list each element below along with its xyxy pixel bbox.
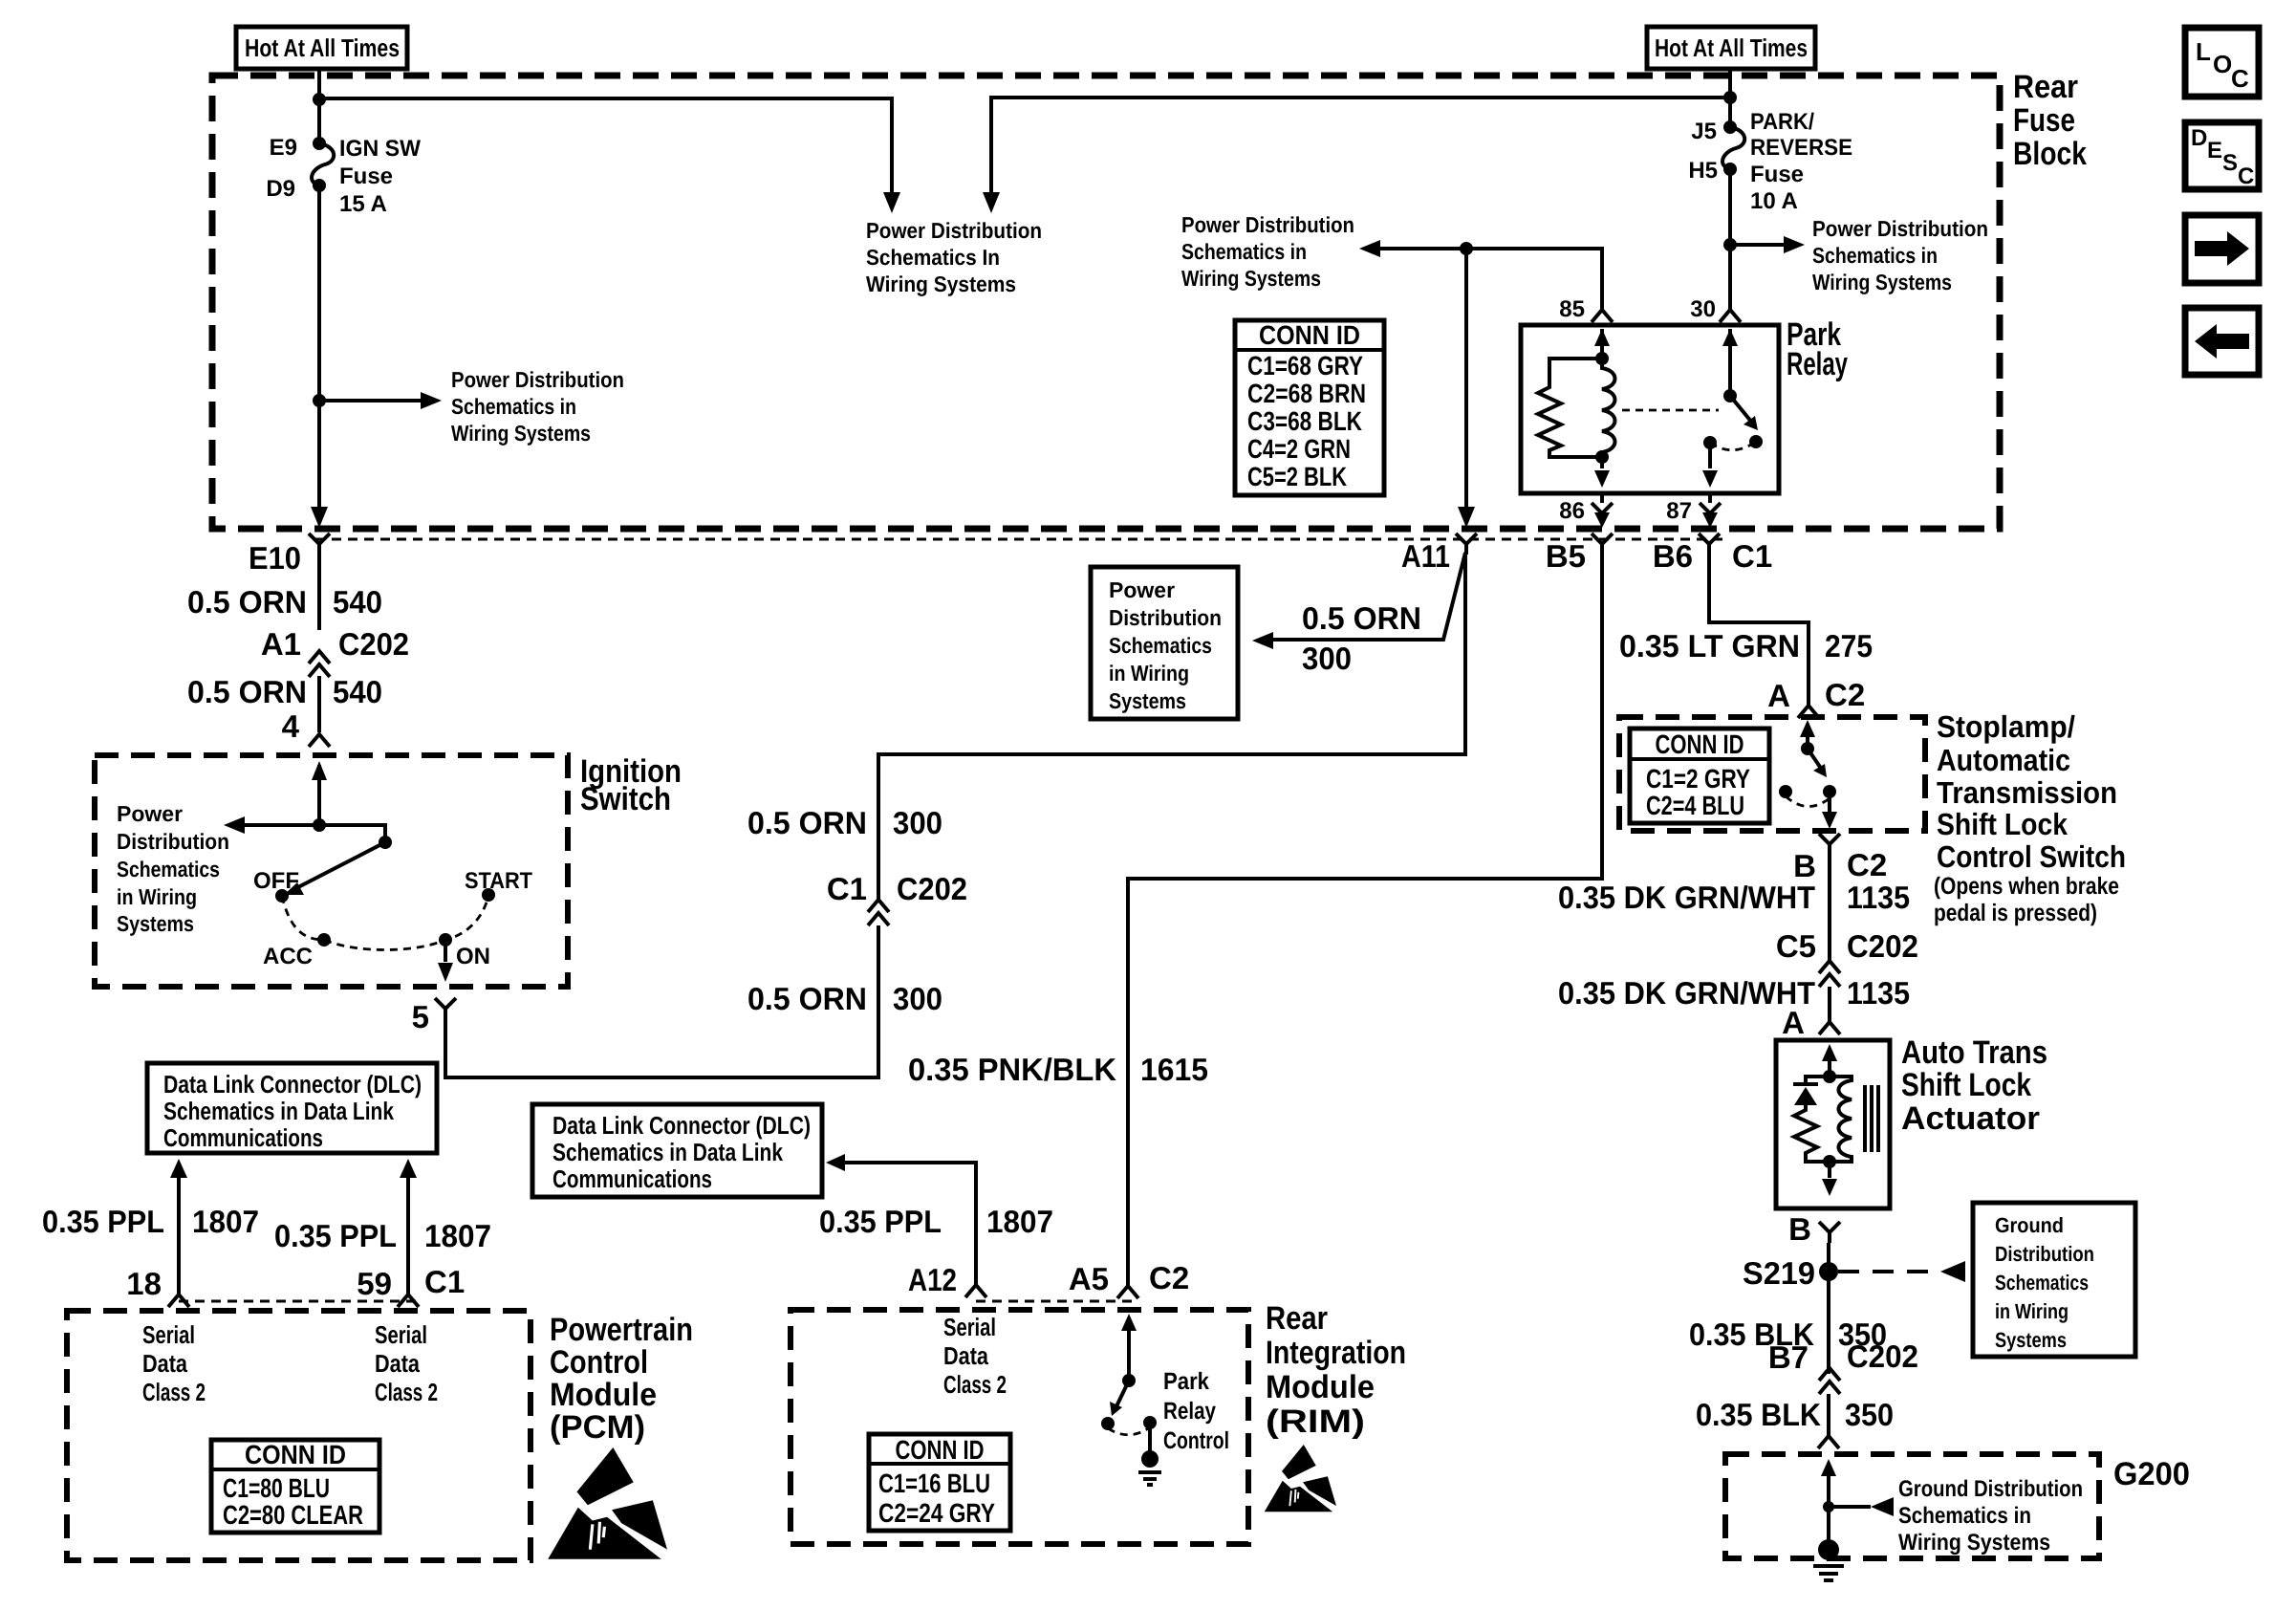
- svg-text:Class 2: Class 2: [375, 1378, 438, 1406]
- ref arrow left Power Distribution (relay 85 net): [1375, 249, 1602, 310]
- svg-text:Fuse: Fuse: [1750, 162, 1804, 187]
- wire horizontal bus 1 to down-arrow: [319, 98, 892, 192]
- junction node at J5 bus: [1723, 91, 1737, 104]
- svg-text:Communications: Communications: [163, 1123, 323, 1152]
- wire relay pin 86 to fuse block edge: [1600, 493, 1604, 503]
- svg-text:30: 30: [1690, 296, 1716, 322]
- svg-text:Distribution: Distribution: [1109, 605, 1222, 630]
- Ground Distribution ref box (solid): [1973, 1203, 2135, 1357]
- stoplamp switch pivot: [1801, 742, 1814, 755]
- svg-text:(Opens when brake: (Opens when brake: [1934, 873, 2119, 900]
- svg-text:0.35 DK GRN/WHT: 0.35 DK GRN/WHT: [1558, 975, 1815, 1011]
- RIM switch lower contact: [1143, 1416, 1157, 1429]
- relay coil top node: [1595, 352, 1609, 365]
- CONN ID table (PCM): [211, 1440, 379, 1533]
- svg-text:0.35 PPL: 0.35 PPL: [274, 1218, 397, 1253]
- relay coil bottom node: [1595, 450, 1609, 464]
- svg-text:0.35 LT GRN: 0.35 LT GRN: [1619, 628, 1800, 664]
- svg-text:CONN ID: CONN ID: [245, 1440, 346, 1469]
- G200 branch to ref arrow: [1829, 1505, 1871, 1509]
- svg-text:1807: 1807: [986, 1204, 1053, 1239]
- ignition ON contact: [439, 933, 452, 946]
- Auto Trans Shift Lock Actuator box: [1776, 1040, 1890, 1208]
- connector chevron above G200: [1818, 1436, 1839, 1448]
- wire from D9 down to E10 exit: [317, 185, 321, 511]
- svg-text:pedal is pressed): pedal is pressed): [1934, 900, 2097, 926]
- svg-text:Control: Control: [1163, 1427, 1229, 1454]
- branch arrow to Power Distribution ref (right): [1730, 243, 1789, 247]
- wire B6 to stoplamp switch A C2: [1709, 555, 1809, 705]
- svg-text:A12: A12: [908, 1262, 957, 1297]
- svg-text:0.35 PNK/BLK: 0.35 PNK/BLK: [908, 1052, 1116, 1087]
- Hot At All Times label box (right): [1647, 27, 1815, 69]
- svg-text:Power Distribution: Power Distribution: [451, 367, 624, 392]
- svg-text:C2=80 CLEAR: C2=80 CLEAR: [223, 1500, 363, 1530]
- svg-text:59: 59: [357, 1266, 392, 1301]
- svg-text:(PCM): (PCM): [550, 1409, 645, 1446]
- connector B6 chevron: [1699, 533, 1720, 555]
- svg-text:Schematics in: Schematics in: [1812, 243, 1938, 268]
- actuator feed arrow: [1828, 1048, 1831, 1077]
- svg-text:1807: 1807: [192, 1204, 259, 1239]
- svg-text:S: S: [2222, 150, 2238, 176]
- svg-text:C202: C202: [897, 871, 967, 906]
- junction node A11 feed: [1460, 242, 1473, 255]
- svg-text:0.5 ORN: 0.5 ORN: [187, 674, 307, 709]
- svg-text:Data Link Connector (DLC): Data Link Connector (DLC): [163, 1070, 422, 1099]
- svg-text:Data: Data: [375, 1349, 420, 1378]
- G200 dashed box: [1725, 1454, 2099, 1558]
- stoplamp moving contact: [1823, 785, 1836, 798]
- svg-text:Data Link Connector (DLC): Data Link Connector (DLC): [552, 1111, 811, 1140]
- svg-text:Schematics: Schematics: [117, 857, 220, 881]
- connector B5 chevron: [1592, 533, 1613, 555]
- svg-text:C3=68 BLK: C3=68 BLK: [1247, 406, 1362, 436]
- svg-text:0.35 PPL: 0.35 PPL: [42, 1204, 164, 1239]
- svg-text:1135: 1135: [1847, 880, 1910, 915]
- svg-text:Hot At All Times: Hot At All Times: [245, 33, 400, 62]
- svg-text:B7: B7: [1768, 1339, 1809, 1375]
- svg-text:C5=2 BLK: C5=2 BLK: [1247, 462, 1347, 491]
- svg-text:0.35 BLK: 0.35 BLK: [1696, 1397, 1821, 1432]
- wire 59 up-arrow to DLC box 1: [406, 1178, 410, 1295]
- svg-text:C202: C202: [1847, 928, 1918, 964]
- svg-text:E10: E10: [249, 540, 301, 576]
- relay coil: [1602, 359, 1615, 457]
- stoplamp dashed throw arc: [1786, 796, 1830, 807]
- svg-text:0.35 PPL: 0.35 PPL: [819, 1204, 942, 1239]
- connector chevron pin 30: [1720, 310, 1741, 322]
- actuator diode + resistor branch: [1806, 1077, 1830, 1084]
- wire A11 down from junction: [1464, 249, 1468, 511]
- svg-text:C2: C2: [1149, 1260, 1189, 1295]
- G200 ground symbol: [1818, 1539, 1839, 1560]
- connector A C2 chevron: [1798, 706, 1819, 718]
- CONN ID table (stoplamp): [1630, 729, 1769, 823]
- LOC nav box: [2185, 28, 2259, 97]
- relay switch common feed (pin 30 inside): [1728, 329, 1732, 396]
- A11 stub wire to 0.5 ORN 300 ref arrow: [1267, 553, 1465, 640]
- svg-text:C2: C2: [1825, 677, 1865, 712]
- wire relay pin 87 to fuse block edge: [1708, 493, 1712, 503]
- wire pin 5 to C202 C1 run (0.5 ORN 300): [445, 555, 1465, 1077]
- RIM park relay control feed arrow: [1127, 1317, 1131, 1381]
- junction node power dist branch right: [1723, 238, 1737, 251]
- svg-text:C2: C2: [1847, 847, 1887, 882]
- svg-text:Ground Distribution: Ground Distribution: [1898, 1476, 2083, 1502]
- connector B C2 chevron: [1819, 834, 1840, 855]
- svg-text:Data: Data: [142, 1349, 187, 1378]
- ignition junction node: [313, 818, 326, 832]
- svg-text:Control: Control: [550, 1344, 648, 1381]
- svg-text:4: 4: [282, 708, 300, 744]
- svg-text:1135: 1135: [1847, 975, 1910, 1011]
- svg-text:Relay: Relay: [1163, 1398, 1216, 1425]
- wire from Hot box 2 down to J5: [1728, 67, 1732, 127]
- svg-text:Control Switch: Control Switch: [1937, 839, 2126, 874]
- CONN ID table (Rear Fuse Block): [1235, 320, 1384, 495]
- svg-text:PARK/: PARK/: [1750, 109, 1814, 135]
- svg-text:Fuse: Fuse: [2013, 102, 2075, 139]
- svg-text:Module: Module: [1266, 1369, 1375, 1405]
- svg-text:H5: H5: [1688, 158, 1718, 184]
- svg-text:Wiring Systems: Wiring Systems: [866, 272, 1016, 296]
- svg-text:C: C: [2231, 64, 2249, 93]
- connector pin 4 chevron: [309, 734, 330, 747]
- splice S219: [1819, 1262, 1838, 1281]
- actuator top node: [1823, 1070, 1836, 1083]
- relay actuation dashed link: [1622, 409, 1719, 412]
- svg-text:Schematics in: Schematics in: [451, 394, 576, 419]
- connector C202 chevrons (A1): [309, 651, 330, 677]
- svg-text:Switch: Switch: [580, 781, 671, 817]
- svg-text:Shift Lock: Shift Lock: [1901, 1067, 2031, 1103]
- relay wire coil to pin 86: [1600, 457, 1604, 468]
- ignition feed arrow inside box: [317, 765, 321, 825]
- svg-text:Rear: Rear: [1266, 1300, 1328, 1337]
- RIM connector thin dashed line: [976, 1300, 1137, 1303]
- svg-text:Module: Module: [550, 1377, 657, 1413]
- connector line C1 (thin dashed under fuse block): [315, 538, 1725, 541]
- svg-text:C2=4 BLU: C2=4 BLU: [1646, 791, 1744, 820]
- svg-text:275: 275: [1825, 628, 1873, 664]
- CONN ID table (RIM): [869, 1434, 1010, 1531]
- connector A11 chevron: [1456, 533, 1477, 555]
- wire B5 to RIM A5 (0.35 PNK/BLK 1615): [1128, 555, 1602, 1285]
- svg-text:300: 300: [893, 981, 942, 1016]
- svg-text:Relay: Relay: [1787, 346, 1848, 382]
- Powertrain Control Module dashed box: [67, 1311, 531, 1560]
- svg-text:C5: C5: [1776, 928, 1816, 964]
- wire C202 to actuator A: [1828, 987, 1831, 1021]
- ESD symbol (RIM): [1265, 1445, 1336, 1512]
- svg-text:Schematics in Data Link: Schematics in Data Link: [163, 1097, 394, 1125]
- ignition ON output wire: [444, 940, 447, 962]
- svg-text:85: 85: [1559, 296, 1585, 322]
- svg-text:Block: Block: [2013, 136, 2087, 172]
- svg-text:Actuator: Actuator: [1901, 1100, 2040, 1137]
- wire horizontal bus 2 from down-arrow to J5: [991, 98, 1730, 192]
- RIM switch arm: [1116, 1381, 1129, 1406]
- svg-text:C4=2 GRN: C4=2 GRN: [1247, 434, 1351, 464]
- svg-text:Serial: Serial: [943, 1313, 996, 1341]
- svg-text:Power Distribution: Power Distribution: [1812, 216, 1988, 241]
- svg-text:Systems: Systems: [117, 911, 194, 936]
- wire from Hot box 1 down to IGN SW fuse: [317, 67, 321, 143]
- svg-text:REVERSE: REVERSE: [1750, 135, 1852, 161]
- Rear Integration Module dashed box: [791, 1310, 1248, 1544]
- wire B to C5 C202: [1828, 855, 1831, 961]
- svg-text:D: D: [2191, 125, 2207, 151]
- RIM internal ground stub: [1148, 1423, 1152, 1457]
- svg-text:CONN ID: CONN ID: [896, 1435, 985, 1465]
- svg-text:C202: C202: [1847, 1338, 1918, 1374]
- svg-text:E9: E9: [270, 135, 297, 161]
- svg-text:15 A: 15 A: [339, 191, 387, 217]
- svg-text:O: O: [2213, 50, 2232, 78]
- svg-text:C2=68 BRN: C2=68 BRN: [1247, 379, 1366, 408]
- svg-text:0.35 DK GRN/WHT: 0.35 DK GRN/WHT: [1558, 880, 1815, 915]
- ignition OFF contact: [275, 889, 289, 903]
- svg-text:C2=24 GRY: C2=24 GRY: [878, 1498, 995, 1528]
- right arrow nav box: [2185, 215, 2259, 283]
- connector C202 chevrons (C1): [868, 900, 889, 925]
- svg-text:Power Distribution: Power Distribution: [1181, 212, 1354, 237]
- svg-text:Integration: Integration: [1266, 1335, 1406, 1371]
- svg-text:Schematics In: Schematics In: [866, 245, 1000, 270]
- svg-text:S219: S219: [1743, 1255, 1815, 1291]
- svg-text:C1: C1: [424, 1264, 465, 1299]
- Power Distribution Schematics in Wiring Systems ref box (solid): [1091, 567, 1238, 719]
- junction node at top of IGN SW wire: [313, 93, 326, 106]
- svg-text:Schematics in Data Link: Schematics in Data Link: [552, 1138, 783, 1166]
- dashed ref to Ground Distribution: [1838, 1270, 1939, 1273]
- RIM switch open contact: [1101, 1417, 1115, 1430]
- svg-text:Schematics in: Schematics in: [1898, 1503, 2031, 1529]
- connector A5 chevron: [1117, 1286, 1138, 1298]
- svg-text:Transmission: Transmission: [1937, 775, 2117, 810]
- svg-text:(RIM): (RIM): [1266, 1403, 1365, 1440]
- fuse PARK/REVERSE 10A J5/H5: [1723, 120, 1737, 134]
- svg-text:Wiring Systems: Wiring Systems: [1181, 266, 1321, 291]
- svg-text:C1=2 GRY: C1=2 GRY: [1646, 764, 1750, 794]
- G200 branch node: [1823, 1501, 1834, 1512]
- svg-text:C1=80 BLU: C1=80 BLU: [223, 1473, 330, 1503]
- svg-text:D9: D9: [266, 176, 295, 202]
- actuator core bars: [1865, 1085, 1878, 1152]
- svg-text:Schematics: Schematics: [1995, 1271, 2089, 1295]
- svg-text:Power Distribution: Power Distribution: [866, 218, 1042, 243]
- DESC nav box: [2185, 122, 2259, 189]
- Data Link Connector ref box 1 (solid): [147, 1063, 437, 1153]
- svg-text:E: E: [2207, 138, 2222, 163]
- svg-text:Rear: Rear: [2013, 69, 2078, 105]
- connector C5 C202 chevrons: [1819, 961, 1840, 987]
- ignition START contact: [482, 888, 495, 902]
- svg-text:ON: ON: [456, 944, 490, 969]
- G200 ground feed arrow: [1827, 1463, 1830, 1550]
- wire from H5 down to relay pin 30: [1728, 169, 1732, 310]
- svg-text:A5: A5: [1069, 1261, 1109, 1296]
- relay switch moving contact: [1749, 435, 1763, 448]
- svg-text:B5: B5: [1546, 538, 1586, 574]
- svg-text:87: 87: [1666, 498, 1692, 524]
- svg-text:540: 540: [333, 584, 382, 620]
- PCM connector thin dashed line: [179, 1300, 421, 1303]
- svg-text:Fuse: Fuse: [339, 163, 393, 189]
- svg-text:Schematics in: Schematics in: [1181, 239, 1307, 264]
- ignition dashed throw arc: [282, 895, 488, 950]
- RIM switch dashed throw arc: [1108, 1427, 1150, 1435]
- svg-text:Distribution: Distribution: [1995, 1242, 2094, 1266]
- svg-text:Auto Trans: Auto Trans: [1901, 1034, 2047, 1071]
- ignition rotor wire: [319, 825, 385, 842]
- svg-text:0.5 ORN: 0.5 ORN: [747, 981, 867, 1016]
- svg-text:1615: 1615: [1140, 1052, 1208, 1087]
- svg-text:Systems: Systems: [1109, 688, 1186, 713]
- relay switch dashed throw arc: [1710, 442, 1756, 450]
- svg-text:300: 300: [893, 805, 942, 840]
- wire B to S219: [1827, 1243, 1830, 1374]
- stoplamp output wire: [1828, 792, 1831, 812]
- svg-text:Stoplamp/: Stoplamp/: [1937, 709, 2075, 744]
- svg-text:C1: C1: [827, 871, 867, 906]
- actuator output wire: [1828, 1162, 1831, 1178]
- svg-text:C1: C1: [1732, 538, 1772, 574]
- Hot At All Times label box (left): [236, 27, 407, 69]
- svg-text:Data: Data: [943, 1341, 988, 1370]
- svg-text:L: L: [2196, 37, 2211, 66]
- relay wire 87 down: [1708, 443, 1712, 468]
- Park Relay box: [1521, 325, 1779, 493]
- svg-text:86: 86: [1559, 498, 1585, 524]
- relay resistor (parallel): [1538, 359, 1602, 457]
- Data Link Connector ref box 2 (solid): [532, 1104, 822, 1197]
- connector pin 59 chevron: [398, 1295, 419, 1307]
- svg-text:A: A: [1767, 678, 1790, 713]
- svg-text:Serial: Serial: [375, 1320, 427, 1349]
- svg-text:0.5 ORN: 0.5 ORN: [747, 805, 867, 840]
- svg-text:ACC: ACC: [263, 944, 313, 969]
- svg-text:CONN ID: CONN ID: [1656, 729, 1744, 759]
- stoplamp switch arm: [1808, 749, 1822, 770]
- connector E10 chevron: [309, 533, 330, 555]
- ESD symbol (PCM): [548, 1447, 667, 1559]
- svg-text:A11: A11: [1401, 538, 1450, 574]
- RIM switch pivot: [1122, 1374, 1136, 1387]
- connector A12 chevron: [965, 1285, 986, 1297]
- wire C202 to G200: [1827, 1394, 1830, 1435]
- svg-text:10 A: 10 A: [1750, 188, 1798, 214]
- svg-text:Hot At All Times: Hot At All Times: [1655, 33, 1808, 62]
- svg-text:Power: Power: [1109, 577, 1175, 602]
- svg-text:B: B: [1788, 1211, 1811, 1247]
- svg-text:Communications: Communications: [552, 1164, 712, 1193]
- svg-text:0.5 ORN: 0.5 ORN: [1302, 600, 1421, 636]
- stoplamp switch feed arrow: [1806, 724, 1809, 749]
- svg-text:Shift Lock: Shift Lock: [1937, 807, 2068, 841]
- wire A12 to DLC box 2: [841, 1163, 976, 1285]
- svg-text:OFF: OFF: [253, 868, 299, 894]
- svg-text:Automatic: Automatic: [1937, 743, 2070, 777]
- svg-text:Park: Park: [1163, 1368, 1209, 1395]
- wire 18 up-arrow to DLC box 1: [177, 1178, 181, 1295]
- svg-text:B6: B6: [1653, 538, 1693, 574]
- relay switch fixed contact 87: [1703, 436, 1717, 449]
- svg-text:J5: J5: [1691, 119, 1717, 144]
- Ignition Switch dashed box: [95, 755, 568, 987]
- svg-text:300: 300: [1302, 641, 1352, 676]
- svg-text:A: A: [1782, 1005, 1805, 1040]
- wire E10 to ignition switch: [317, 555, 321, 732]
- relay switch pivot: [1723, 389, 1737, 402]
- Stoplamp switch dashed box: [1619, 717, 1925, 831]
- actuator solenoid coil: [1830, 1077, 1852, 1162]
- connector B7 C202 chevrons: [1819, 1368, 1840, 1394]
- svg-text:CONN ID: CONN ID: [1259, 320, 1360, 350]
- svg-text:in Wiring: in Wiring: [1995, 1299, 2069, 1323]
- arrow into E10 connector: [311, 507, 328, 528]
- svg-text:Wiring Systems: Wiring Systems: [1898, 1530, 2050, 1556]
- svg-text:Schematics: Schematics: [1109, 633, 1212, 658]
- svg-text:Serial: Serial: [142, 1320, 195, 1349]
- svg-text:1807: 1807: [424, 1218, 491, 1253]
- svg-text:Wiring Systems: Wiring Systems: [1812, 270, 1952, 294]
- connector chevron pin 85: [1592, 310, 1613, 322]
- svg-text:18: 18: [126, 1266, 162, 1301]
- stoplamp open contact: [1779, 785, 1792, 798]
- junction node for power dist branch: [313, 394, 326, 407]
- ignition rotor arm: [296, 842, 385, 888]
- actuator bottom node: [1823, 1155, 1836, 1168]
- svg-text:Class 2: Class 2: [943, 1370, 1007, 1399]
- svg-text:0.5 ORN: 0.5 ORN: [187, 584, 307, 620]
- svg-text:START: START: [465, 868, 532, 894]
- svg-text:5: 5: [412, 999, 429, 1034]
- connector pin 5 chevron: [435, 998, 456, 1019]
- svg-text:Wiring Systems: Wiring Systems: [451, 421, 591, 446]
- svg-text:C: C: [2238, 163, 2254, 189]
- svg-text:Powertrain: Powertrain: [550, 1312, 693, 1348]
- svg-text:C1=68 GRY: C1=68 GRY: [1247, 351, 1363, 381]
- svg-text:540: 540: [333, 674, 382, 709]
- svg-text:Distribution: Distribution: [117, 829, 229, 854]
- svg-text:A1: A1: [261, 626, 301, 662]
- relay coil feed arrow (pin 85 inside): [1600, 329, 1604, 359]
- connector pin 18 chevron: [168, 1295, 189, 1307]
- svg-text:Systems: Systems: [1995, 1328, 2067, 1352]
- ignition branch arrow to power dist ref: [239, 823, 319, 827]
- svg-text:C1=16 BLU: C1=16 BLU: [878, 1469, 990, 1498]
- ignition ACC contact: [317, 933, 331, 946]
- svg-text:Ground: Ground: [1995, 1213, 2064, 1237]
- svg-text:IGN SW: IGN SW: [339, 136, 421, 162]
- fuse IGN SW 15A E9/D9: [313, 137, 326, 150]
- branch arrow to Power Distribution ref (left): [319, 399, 426, 402]
- svg-text:Class 2: Class 2: [142, 1378, 206, 1406]
- connector A chevron (actuator): [1819, 1022, 1840, 1034]
- svg-text:C202: C202: [338, 626, 409, 662]
- Rear Fuse Block dashed box: [212, 76, 2000, 529]
- svg-text:in Wiring: in Wiring: [1109, 661, 1189, 685]
- svg-text:350: 350: [1845, 1397, 1894, 1432]
- svg-text:in Wiring: in Wiring: [117, 884, 197, 909]
- svg-text:Power: Power: [117, 801, 183, 826]
- svg-text:B: B: [1793, 848, 1816, 883]
- connector B chevron (actuator): [1819, 1222, 1840, 1243]
- relay switch arm: [1730, 396, 1752, 423]
- svg-text:G200: G200: [2113, 1456, 2190, 1492]
